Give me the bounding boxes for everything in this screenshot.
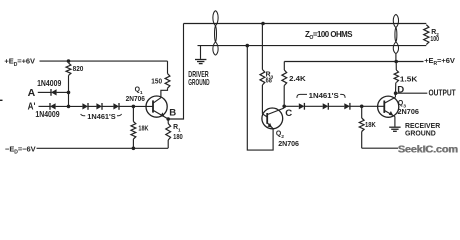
- node junction 18K to -6V rail: [132, 147, 136, 151]
- wire transmission line bottom: [198, 45, 427, 47]
- receiver ground symbol: [389, 126, 400, 128]
- svg-text:A': A': [28, 101, 36, 113]
- node D junction: [394, 91, 398, 95]
- transistor Q3 2N706: [378, 96, 399, 117]
- diode CR1 1N4009: [51, 89, 57, 95]
- diode CR8 1N461: [344, 103, 350, 109]
- wire base Q1: [133, 105, 153, 107]
- node junction bottom wire to emitter return: [246, 44, 250, 48]
- node junction row A': [67, 105, 71, 109]
- node junction 820 pull-up to rail: [67, 59, 71, 63]
- node C junction: [282, 105, 286, 109]
- resistor R3 68: [261, 24, 263, 70]
- diode CR3 1N461: [82, 103, 88, 109]
- wire input A': [39, 105, 51, 107]
- svg-text:C: C: [285, 108, 292, 119]
- svg-text:2.4K: 2.4K: [289, 74, 306, 83]
- wire +E_R rail: [284, 61, 423, 63]
- diode CR2 1N4009: [50, 103, 56, 109]
- wire collector Q1 to 150: [161, 88, 168, 98]
- node junction row A: [67, 91, 71, 95]
- twisted pair left: [213, 11, 217, 56]
- driver ground symbol: [195, 59, 206, 61]
- svg-text:GROUND: GROUND: [188, 78, 209, 87]
- resistor 820: [66, 63, 71, 75]
- wire collector Q3 to node D: [394, 93, 396, 97]
- svg-text:1N461'S: 1N461'S: [87, 112, 115, 121]
- resistor 1.5K: [395, 83, 397, 94]
- wire driver ground stub: [200, 46, 202, 59]
- wire node C to diodes: [284, 105, 299, 107]
- svg-text:820: 820: [73, 64, 84, 73]
- wire -E_D rail: [37, 147, 169, 149]
- transistor Q1 2N706: [146, 96, 167, 117]
- wire 18K receiver to watermark/ground: [362, 147, 398, 149]
- svg-text:B: B: [169, 108, 176, 119]
- node junction top wire to R3: [261, 22, 265, 26]
- diode CR4 1N461: [96, 103, 102, 109]
- svg-text:OUTPUT: OUTPUT: [429, 88, 457, 98]
- wire emitter Q3 to ground: [394, 117, 396, 127]
- diode CR6 1N461: [299, 103, 305, 109]
- wire base Q3: [362, 105, 385, 107]
- node junction Q1 base / 18K: [132, 105, 136, 109]
- wire 820 column: [68, 92, 70, 106]
- wire +E_D rail: [40, 60, 168, 62]
- resistor R1 180: [167, 119, 169, 124]
- svg-text:1N4009: 1N4009: [37, 79, 62, 88]
- svg-text:150: 150: [151, 77, 162, 86]
- svg-text:180: 180: [173, 132, 183, 141]
- resistor 2.4K: [283, 86, 285, 107]
- transistor Q2 2N706: [262, 108, 283, 129]
- wire twisted stub to +E_R rail: [395, 54, 397, 62]
- wire transmission line top: [184, 23, 427, 25]
- svg-text:2N706: 2N706: [398, 107, 419, 116]
- svg-text:18K: 18K: [365, 120, 376, 129]
- svg-text:18K: 18K: [138, 123, 148, 132]
- resistor 18K receiver: [361, 106, 363, 118]
- resistor 18K driver: [132, 106, 134, 121]
- svg-text:SeekIC.com: SeekIC.com: [398, 143, 458, 155]
- wire input A: [38, 91, 51, 93]
- svg-text:A: A: [28, 87, 36, 99]
- wire output: [396, 92, 428, 94]
- svg-text:68: 68: [266, 76, 272, 85]
- wire node B to line: [168, 24, 183, 120]
- svg-text:1N4009: 1N4009: [35, 110, 60, 119]
- node B junction: [166, 117, 170, 121]
- wire emitter return Q2: [247, 46, 273, 151]
- svg-text:1.5K: 1.5K: [400, 75, 418, 84]
- label 1N461'S (receiver): [297, 94, 307, 98]
- svg-text:1N461'S: 1N461'S: [309, 91, 339, 100]
- svg-text:100: 100: [430, 34, 439, 43]
- label 1N461'S (driver): [81, 114, 86, 116]
- node junction rail / 1.5K / line stub: [394, 60, 398, 64]
- scan artifact left edge: [0, 99, 3, 101]
- diode CR5 1N461: [113, 103, 119, 109]
- resistor 150: [167, 61, 169, 74]
- twisted pair right: [393, 14, 397, 53]
- svg-text:2N706: 2N706: [278, 139, 299, 148]
- diode CR7 1N461: [323, 103, 329, 109]
- svg-text:GROUND: GROUND: [405, 129, 436, 138]
- node junction Q3 base / 18K: [360, 105, 364, 109]
- svg-text:2N706: 2N706: [126, 94, 145, 103]
- resistor R2 100: [424, 25, 429, 45]
